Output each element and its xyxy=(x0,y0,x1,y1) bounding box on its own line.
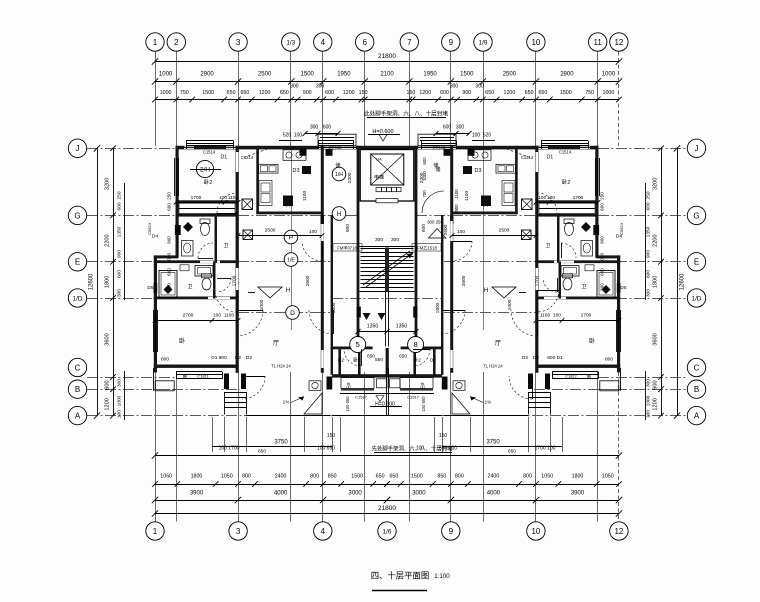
dim extension verticals xyxy=(212,417,214,452)
svg-text:2500: 2500 xyxy=(499,228,510,234)
svg-text:厅: 厅 xyxy=(273,340,279,347)
axis bubble J right xyxy=(687,139,705,157)
svg-text:2500: 2500 xyxy=(503,72,517,78)
wall bath2 mid L xyxy=(213,262,216,299)
axis bubble 9 top xyxy=(442,33,460,51)
bottom fine dims xyxy=(155,484,619,486)
svg-text:2400: 2400 xyxy=(275,474,287,480)
svg-text:3000: 3000 xyxy=(412,491,426,497)
axis bubble 4 top xyxy=(314,33,332,51)
svg-text:750: 750 xyxy=(180,90,189,96)
svg-text:300: 300 xyxy=(391,237,399,243)
svg-text:1000: 1000 xyxy=(259,299,265,310)
svg-text:C1214: C1214 xyxy=(241,155,254,160)
balcony window C1811 L xyxy=(176,371,222,373)
svg-text:2100: 2100 xyxy=(380,72,394,78)
svg-text:J: J xyxy=(695,144,699,153)
svg-text:1/D: 1/D xyxy=(692,295,702,302)
svg-text:100: 100 xyxy=(294,133,303,139)
wall G bath L xyxy=(176,214,239,217)
terrace R xyxy=(444,415,528,417)
axis bubble 9 bottom xyxy=(442,522,460,540)
svg-text:2900: 2900 xyxy=(200,72,214,78)
svg-text:300: 300 xyxy=(117,289,123,297)
svg-text:2500: 2500 xyxy=(265,228,276,234)
flue shaft xyxy=(444,149,451,156)
svg-text:650: 650 xyxy=(258,449,266,455)
svg-text:11: 11 xyxy=(594,38,603,47)
svg-text:D: D xyxy=(290,310,295,317)
flue xbox R xyxy=(522,199,533,210)
svg-text:OA: OA xyxy=(376,157,382,162)
window right wall upper xyxy=(595,158,597,196)
svg-text:7: 7 xyxy=(407,38,412,47)
stair rail lines xyxy=(385,292,387,347)
door arc entry R xyxy=(509,376,532,399)
svg-text:4000: 4000 xyxy=(274,491,288,497)
door gap axis3 R xyxy=(536,152,538,172)
svg-text:12600: 12600 xyxy=(680,273,686,290)
door arc hall L xyxy=(309,310,333,334)
horizontal grid lines xyxy=(87,148,176,150)
svg-text:1800: 1800 xyxy=(653,276,659,288)
svg-text:650: 650 xyxy=(525,90,534,96)
svg-text:100 650: 100 650 xyxy=(345,396,350,412)
svg-text:D2: D2 xyxy=(235,355,241,361)
svg-text:A: A xyxy=(75,412,81,421)
svg-text:750: 750 xyxy=(585,90,594,96)
svg-text:3750: 3750 xyxy=(274,440,288,446)
svg-text:300: 300 xyxy=(117,379,123,387)
svg-text:2: 2 xyxy=(174,38,179,47)
wall left upper xyxy=(176,146,179,258)
svg-text:900: 900 xyxy=(462,90,471,96)
svg-text:1350: 1350 xyxy=(117,226,123,237)
mid room wall R xyxy=(433,348,436,375)
svg-text:1800: 1800 xyxy=(572,474,584,480)
window right wall lower xyxy=(616,310,618,352)
wall bedroom bottom L xyxy=(176,200,239,202)
axis bubble 6 top xyxy=(356,33,374,51)
svg-text:9: 9 xyxy=(449,527,454,536)
svg-text:10: 10 xyxy=(531,527,540,536)
axis bubble 1/H L xyxy=(332,167,346,181)
svg-text:1/9: 1/9 xyxy=(479,39,488,46)
window C1514 L xyxy=(186,140,233,142)
svg-text:100: 100 xyxy=(309,229,317,235)
elevator counterweight xyxy=(376,188,401,192)
wall D R xyxy=(536,297,620,300)
svg-text:150: 150 xyxy=(406,90,415,96)
mid pier L xyxy=(327,377,333,390)
mid divider lines xyxy=(386,368,388,416)
svg-text:250: 250 xyxy=(167,192,172,200)
svg-text:1500: 1500 xyxy=(560,90,572,96)
svg-text:100: 100 xyxy=(646,410,652,418)
vertical grid lines xyxy=(155,52,157,147)
svg-text:600: 600 xyxy=(646,270,652,278)
svg-text:1800: 1800 xyxy=(435,302,441,313)
svg-text:D2: D2 xyxy=(522,355,528,361)
svg-text:卧2: 卧2 xyxy=(204,178,213,186)
svg-text:650: 650 xyxy=(240,90,249,96)
svg-text:卧2: 卧2 xyxy=(413,357,421,364)
svg-text:600: 600 xyxy=(440,90,449,96)
svg-text:D3: D3 xyxy=(475,168,482,174)
svg-text:100: 100 xyxy=(416,446,425,452)
mid bottom edge xyxy=(332,415,442,417)
svg-text:C1514: C1514 xyxy=(203,150,216,155)
window kitchen win R xyxy=(421,140,456,142)
bath upper fixtures L xyxy=(183,222,193,232)
svg-text:1: 1 xyxy=(153,38,158,47)
svg-text:1%: 1% xyxy=(485,400,492,405)
svg-text:2200: 2200 xyxy=(653,234,659,246)
svg-text:C: C xyxy=(75,363,81,372)
wall axis3 L xyxy=(236,146,239,373)
axis bubble 1/9 top xyxy=(474,33,492,51)
svg-text:1100: 1100 xyxy=(302,191,308,202)
svg-text:1000: 1000 xyxy=(646,395,652,406)
wall right upper xyxy=(595,146,598,258)
right col triangle xyxy=(429,229,447,239)
door arc bedroom2 L xyxy=(237,310,263,336)
svg-text:卫: 卫 xyxy=(581,284,586,290)
top dim row segments xyxy=(155,81,619,83)
svg-text:1200: 1200 xyxy=(653,398,659,410)
axis bubble E left xyxy=(68,253,86,271)
elevator shaft xyxy=(360,150,414,202)
axis bubble 3 bottom xyxy=(229,522,247,540)
axis bubble G right xyxy=(687,206,705,224)
svg-text:300: 300 xyxy=(310,125,319,131)
top dim row fine xyxy=(155,99,619,101)
wall E L xyxy=(154,260,239,263)
axis bubble 1/6 bottom xyxy=(378,522,396,540)
wall left lower xyxy=(154,255,157,372)
svg-text:1950: 1950 xyxy=(423,72,437,78)
svg-text:900: 900 xyxy=(303,90,312,96)
wall step E right xyxy=(596,255,620,258)
svg-text:8: 8 xyxy=(414,340,418,349)
fine dims right col xyxy=(645,183,647,300)
svg-text:520: 520 xyxy=(283,133,292,139)
svg-text:21800: 21800 xyxy=(378,53,396,60)
wall step E left xyxy=(154,255,178,258)
svg-text:B: B xyxy=(75,385,80,394)
wall axis4 L xyxy=(321,146,324,373)
closet band R xyxy=(539,203,595,213)
svg-text:C1514: C1514 xyxy=(559,150,572,155)
svg-text:1050: 1050 xyxy=(541,474,553,480)
wall kitchen R xyxy=(515,146,518,214)
svg-text:1050: 1050 xyxy=(160,474,172,480)
mid band wall xyxy=(332,374,442,377)
svg-text:650: 650 xyxy=(508,449,516,455)
svg-text:800: 800 xyxy=(310,474,319,480)
window left wall upper xyxy=(174,158,176,196)
svg-text:12600: 12600 xyxy=(89,273,95,290)
svg-text:600: 600 xyxy=(117,202,123,210)
svg-text:300: 300 xyxy=(646,289,652,297)
mid cabinets xyxy=(377,379,388,388)
wall bath mid L xyxy=(215,214,218,263)
svg-text:2300: 2300 xyxy=(419,172,425,183)
svg-text:1700: 1700 xyxy=(232,275,238,286)
stair hall bottom wall L xyxy=(331,347,373,350)
svg-text:300: 300 xyxy=(375,237,383,243)
svg-text:2400: 2400 xyxy=(488,474,500,480)
axis bubble 1 bottom xyxy=(146,522,164,540)
axis bubble 10 bottom xyxy=(527,522,545,540)
svg-text:1100: 1100 xyxy=(454,189,459,199)
svg-text:四、十层平面图: 四、十层平面图 xyxy=(371,571,430,581)
axis bubble 12 top xyxy=(610,33,628,51)
top wall window cutouts xyxy=(184,146,194,149)
svg-text:250: 250 xyxy=(646,191,652,199)
door gap axis4 R xyxy=(450,221,452,241)
svg-text:C: C xyxy=(694,363,700,372)
svg-text:H: H xyxy=(337,211,342,218)
svg-text:300: 300 xyxy=(316,84,325,90)
axis bubble 10 top xyxy=(527,33,545,51)
wall D L xyxy=(154,297,238,300)
axis bubble 4 bottom xyxy=(314,522,332,540)
svg-text:3600: 3600 xyxy=(653,333,659,345)
door arc bedroom2 R xyxy=(511,310,537,336)
svg-text:100: 100 xyxy=(117,410,123,418)
svg-text:1/3: 1/3 xyxy=(286,39,295,46)
svg-text:900: 900 xyxy=(600,236,605,244)
svg-text:1100: 1100 xyxy=(540,313,551,319)
svg-text:800: 800 xyxy=(161,357,169,363)
svg-text:800: 800 xyxy=(242,474,251,480)
svg-text:300: 300 xyxy=(646,379,652,387)
wall bath mid R xyxy=(557,214,560,263)
svg-text:E: E xyxy=(75,258,80,267)
window kitchen win L xyxy=(318,140,353,142)
svg-text:C0624: C0624 xyxy=(147,222,152,235)
svg-text:1700: 1700 xyxy=(573,195,584,201)
svg-text:G: G xyxy=(74,211,80,220)
svg-text:600: 600 xyxy=(345,224,351,232)
svg-text:3: 3 xyxy=(236,527,241,536)
svg-text:10: 10 xyxy=(531,38,540,47)
wall hall L xyxy=(331,215,333,375)
axis bubble 7 top xyxy=(400,33,418,51)
axis bubble B left xyxy=(68,380,86,398)
svg-text:卫: 卫 xyxy=(187,284,192,290)
svg-text:700: 700 xyxy=(422,190,427,198)
mid cabinet box L xyxy=(341,378,374,389)
svg-text:D2: D2 xyxy=(533,355,539,361)
svg-text:卧: 卧 xyxy=(179,337,185,345)
axis bubble C right xyxy=(687,358,705,376)
svg-text:H: H xyxy=(484,288,488,294)
svg-text:卧2: 卧2 xyxy=(353,357,361,364)
axis bubble 12 bottom xyxy=(610,522,628,540)
svg-text:C1812: C1812 xyxy=(565,374,578,379)
svg-text:储: 储 xyxy=(433,162,438,169)
svg-text:300: 300 xyxy=(475,84,484,90)
axis bubble 8 xyxy=(408,337,424,353)
svg-text:D1: D1 xyxy=(221,155,228,161)
door gap axis3 L xyxy=(236,152,238,172)
svg-text:3200: 3200 xyxy=(105,178,111,190)
svg-text:600: 600 xyxy=(167,203,172,211)
svg-text:300: 300 xyxy=(290,84,299,90)
kitchen door jamb R xyxy=(450,216,453,225)
axis bubble G left xyxy=(68,206,86,224)
bay window top xyxy=(318,134,356,146)
axis bubble A right xyxy=(687,406,705,424)
svg-text:3200: 3200 xyxy=(653,178,659,190)
axis bubble D L xyxy=(286,306,300,320)
svg-text:D2: D2 xyxy=(430,358,436,364)
svg-text:1000: 1000 xyxy=(603,90,615,96)
svg-text:650: 650 xyxy=(367,354,375,360)
svg-text:9: 9 xyxy=(449,38,454,47)
svg-text:3900: 3900 xyxy=(190,491,204,497)
svg-text:C0624: C0624 xyxy=(619,222,624,235)
axis bubble J left xyxy=(68,139,86,157)
svg-text:520: 520 xyxy=(483,133,492,139)
overall dim 21800 top xyxy=(155,61,619,63)
window C1514 R xyxy=(541,140,588,142)
svg-text:1800: 1800 xyxy=(331,302,337,313)
bath lower fixtures L xyxy=(159,271,177,298)
svg-text:150: 150 xyxy=(439,433,448,439)
window left wall lower xyxy=(153,310,155,352)
balcony end box R xyxy=(600,381,619,391)
wall C band R xyxy=(536,365,620,368)
svg-text:1800: 1800 xyxy=(191,474,203,480)
axis bubble 5 xyxy=(350,337,366,353)
entrance mark R xyxy=(492,287,516,298)
svg-text:900: 900 xyxy=(454,204,459,212)
svg-text:1100: 1100 xyxy=(464,191,470,202)
svg-text:3600: 3600 xyxy=(105,333,111,345)
svg-text:900: 900 xyxy=(117,250,123,258)
svg-text:4000: 4000 xyxy=(487,491,501,497)
right overall dim 12600 xyxy=(677,148,679,415)
svg-text:D2: D2 xyxy=(246,355,252,361)
door arc kitchen L xyxy=(302,241,322,261)
svg-text:600: 600 xyxy=(600,268,605,276)
svg-text:C1517: C1517 xyxy=(355,395,368,400)
door arc living L xyxy=(215,290,237,312)
svg-text:12: 12 xyxy=(614,527,623,536)
axis bubble 2 top xyxy=(167,33,185,51)
svg-text:D5: D5 xyxy=(147,285,153,291)
svg-text:1500: 1500 xyxy=(351,474,363,480)
svg-text:5: 5 xyxy=(356,340,360,349)
svg-text:3000: 3000 xyxy=(348,491,362,497)
mid center wall xyxy=(386,348,389,375)
svg-text:1350: 1350 xyxy=(646,226,652,237)
wall kitchen L xyxy=(256,146,259,214)
svg-text:1700: 1700 xyxy=(535,275,541,286)
svg-text:1100: 1100 xyxy=(228,195,239,201)
wall axis3 R xyxy=(535,146,538,373)
door arc room5 R xyxy=(413,349,430,366)
closet band L xyxy=(179,203,235,213)
axis bubble 11 top xyxy=(589,33,607,51)
svg-text:800: 800 xyxy=(523,474,532,480)
svg-text:250: 250 xyxy=(600,192,605,200)
axis bubble 1/D right xyxy=(687,289,705,307)
svg-text:1/E: 1/E xyxy=(287,257,295,263)
svg-text:A: A xyxy=(694,412,700,421)
svg-text:2600: 2600 xyxy=(443,224,449,235)
svg-text:FM乙1518: FM乙1518 xyxy=(417,245,437,251)
svg-text:600: 600 xyxy=(600,203,605,211)
door arc bedroom L xyxy=(217,193,237,213)
flue shaft xyxy=(326,149,333,156)
bath upper fixtures R xyxy=(581,222,591,232)
axis bubble E right xyxy=(687,253,705,271)
axis bubble C left xyxy=(68,358,86,376)
svg-text:1000: 1000 xyxy=(117,395,123,406)
svg-text:2600: 2600 xyxy=(461,275,467,286)
kitchen door jamb L xyxy=(321,216,324,225)
door arc entry L xyxy=(242,376,265,399)
svg-text:600: 600 xyxy=(105,380,111,389)
svg-text:1200: 1200 xyxy=(105,398,111,410)
dim line 1700 L xyxy=(176,202,238,204)
svg-text:储: 储 xyxy=(335,162,340,169)
svg-text:卫: 卫 xyxy=(223,243,228,249)
axis bubble B right xyxy=(687,380,705,398)
flue xbox2 L xyxy=(243,230,253,240)
svg-text:2900: 2900 xyxy=(560,72,574,78)
mid pier R xyxy=(442,377,448,390)
svg-text:D2: D2 xyxy=(338,358,344,364)
wall bedroom bottom R xyxy=(536,200,599,202)
dim line 2700 R xyxy=(536,320,619,322)
svg-text:600: 600 xyxy=(443,125,452,131)
svg-text:C1214: C1214 xyxy=(521,155,534,160)
svg-text:100: 100 xyxy=(213,313,221,319)
svg-text:1: 1 xyxy=(153,527,158,536)
svg-text:D4: D4 xyxy=(152,234,158,240)
svg-text:1350: 1350 xyxy=(367,324,379,330)
svg-text:1/H: 1/H xyxy=(335,172,343,178)
svg-text:3900: 3900 xyxy=(571,491,585,497)
svg-text:1050: 1050 xyxy=(602,474,614,480)
svg-text:C1811: C1811 xyxy=(197,374,209,379)
svg-text:厅: 厅 xyxy=(495,340,501,347)
svg-text:卧: 卧 xyxy=(589,337,595,345)
dim line 2500 R xyxy=(452,235,536,237)
svg-text:100 650: 100 650 xyxy=(421,396,426,412)
svg-text:1200: 1200 xyxy=(343,90,355,96)
wall axis4 R xyxy=(450,146,453,373)
wall hall R xyxy=(441,215,443,375)
hall door wedge R xyxy=(378,313,386,320)
svg-text:1200: 1200 xyxy=(504,90,516,96)
svg-text:650: 650 xyxy=(227,90,236,96)
stairs xyxy=(361,248,414,250)
right col door arc xyxy=(422,191,444,213)
svg-text:D3: D3 xyxy=(293,168,300,174)
wall staircore L xyxy=(357,146,360,346)
svg-text:1/D: 1/D xyxy=(73,295,83,302)
svg-text:550: 550 xyxy=(375,357,383,363)
svg-text:850: 850 xyxy=(328,474,337,480)
svg-text:1350: 1350 xyxy=(396,324,408,330)
svg-text:300: 300 xyxy=(456,125,465,131)
